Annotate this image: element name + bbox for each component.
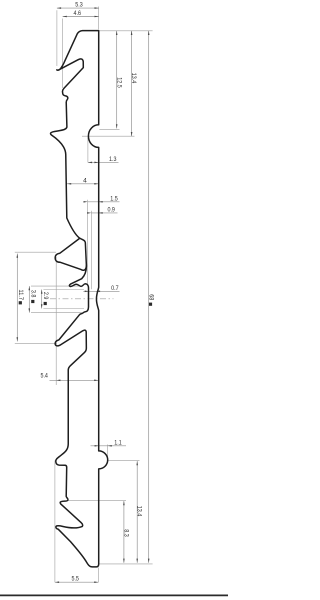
extension line 8.3 top — [68, 500, 127, 502]
svg-text:13.4: 13.4 — [136, 506, 143, 517]
dimension 0.7 — [83, 285, 119, 292]
svg-text:68: 68 — [147, 294, 154, 300]
extension line 12.5 bottom — [99, 129, 119, 131]
svg-text:5.3: 5.3 — [75, 2, 83, 9]
svg-text:1.1: 1.1 — [114, 439, 122, 446]
svg-text:3.8: 3.8 — [29, 290, 36, 298]
svg-text:12.5: 12.5 — [115, 77, 122, 88]
extension lines for 5.3 and 4.6 — [57, 7, 99, 89]
svg-text:8.3: 8.3 — [123, 529, 130, 537]
svg-text:1.5: 1.5 — [110, 195, 118, 202]
centerline dash-dot — [50, 298, 114, 300]
svg-text:0.7: 0.7 — [111, 285, 119, 292]
dimension 1.3 — [88, 156, 119, 163]
dimension 1.1 — [91, 439, 127, 446]
dimension 13.4 vertical bottom — [136, 461, 143, 563]
dimension 4 — [67, 177, 99, 184]
dimension 8.3 vertical — [123, 501, 130, 563]
svg-text:5.4: 5.4 — [40, 372, 48, 379]
extension line 13.4 top-dim bottom — [82, 135, 135, 137]
dimension 13.4 vertical top — [130, 31, 137, 136]
extension line for 1.5 — [87, 200, 89, 286]
svg-text:13.4: 13.4 — [130, 73, 137, 84]
extension line bottom shared — [99, 563, 152, 565]
dimension 3.8 vertical — [29, 286, 37, 313]
svg-text:2.9: 2.9 — [42, 292, 49, 300]
svg-text:4.6: 4.6 — [74, 10, 82, 17]
drawing frame bottom border — [0, 594, 228, 596]
svg-text:1.3: 1.3 — [109, 156, 117, 163]
dimension 5.4 — [40, 372, 98, 381]
svg-text:4: 4 — [83, 177, 87, 184]
extension line top shared — [99, 30, 152, 32]
svg-text:5.5: 5.5 — [71, 576, 79, 583]
extension line 13.4 bottom-dim top — [108, 460, 139, 462]
seal profile outline — [51, 31, 108, 567]
extension line for 1.3 — [87, 138, 89, 163]
dimension 68 vertical — [147, 31, 154, 563]
extension lines for 2.9 — [43, 290, 84, 309]
extension lines for 11.7 — [15, 252, 57, 343]
dimension 1.5 — [84, 195, 120, 202]
dimension 0.9 — [87, 206, 117, 213]
extension line for 1.1 — [107, 445, 109, 459]
dimension 2.9 vertical — [41, 290, 49, 309]
dimension 5.5 — [55, 576, 99, 583]
extension lines for 5.5 — [55, 461, 99, 583]
extension line for 5.4 through lip tips — [55, 257, 57, 385]
svg-text:11.7: 11.7 — [17, 290, 24, 301]
svg-text:0.9: 0.9 — [107, 206, 115, 213]
dimension 12.5 vertical — [115, 31, 122, 129]
dimension 5.3 — [57, 2, 99, 9]
dimension 11.7 vertical — [17, 254, 25, 342]
extension lines for 3.8 — [31, 286, 83, 313]
dimension 4.6 — [63, 10, 99, 17]
extension line for 0.9 and 0.7 — [90, 211, 92, 289]
